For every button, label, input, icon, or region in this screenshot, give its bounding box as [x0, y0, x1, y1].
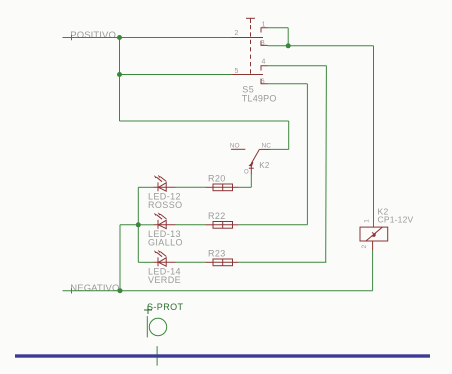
wire from switch pin 1 to junction — [268, 28, 289, 46]
pin number 6 — [261, 78, 265, 85]
R22 label — [208, 211, 226, 221]
lever arm — [251, 149, 259, 163]
lever arrowhead — [249, 162, 253, 166]
switch S5 — [232, 18, 268, 84]
coil reference K2 — [378, 207, 389, 217]
relay coil K2 — [360, 227, 388, 250]
coil pin 2 number (rotated) — [361, 245, 368, 249]
pin number 2 — [235, 30, 239, 37]
svg-text:NC: NC — [262, 142, 272, 149]
svg-text:2: 2 — [235, 30, 239, 37]
relay contact K2 — [231, 149, 270, 174]
svg-text:R22: R22 — [208, 211, 226, 221]
svg-text:S-PROT: S-PROT — [147, 302, 184, 312]
pole 1 common line (pin 2) — [232, 37, 264, 39]
pin name NC — [262, 142, 272, 149]
wire left bus vertical (POSITIVO down) — [119, 38, 121, 122]
pin number 4 — [262, 59, 266, 66]
actuator T-bar — [246, 17, 255, 19]
svg-text:4: 4 — [262, 59, 266, 66]
svg-text:5: 5 — [235, 68, 239, 75]
relay contact reference K2 — [259, 161, 270, 170]
S-PROT lead wire — [156, 346, 158, 365]
LED-12 name — [148, 192, 181, 202]
common pin vertical — [250, 165, 252, 175]
wire R22 to pin6 drop — [239, 224, 308, 226]
pin 1 contact bracket — [261, 28, 268, 33]
wire LED bus to NEGATIVO bus — [120, 225, 138, 291]
resistor R20 — [206, 184, 239, 191]
S-PROT label — [147, 302, 184, 312]
svg-text:TL49PO: TL49PO — [242, 94, 277, 104]
wire R23 to pin4 drop — [239, 261, 327, 263]
S-PROT origin cross — [144, 306, 152, 314]
wire LED-14 to R23 — [176, 261, 206, 263]
svg-text:R23: R23 — [208, 249, 226, 259]
pin 6 contact bracket — [261, 79, 268, 84]
LED-12 value ROSSO — [148, 200, 183, 210]
svg-text:6: 6 — [261, 78, 265, 85]
R23 label — [208, 249, 226, 259]
wire to relay NC contact — [120, 121, 289, 149]
S-PROT sensor symbol — [147, 316, 166, 337]
pin 3 contact bracket — [261, 41, 268, 46]
junction at second row — [117, 72, 122, 77]
NC pin lead — [259, 148, 270, 150]
wire LED-12 to R20 — [176, 186, 206, 188]
coil pin 1 number (rotated) — [364, 219, 371, 223]
wire coil bottom to NEGATIVO — [372, 250, 374, 290]
NO contact stub — [231, 148, 245, 150]
svg-text:1: 1 — [364, 219, 371, 223]
svg-text:VERDE: VERDE — [148, 275, 181, 285]
net NEGATIVO label — [70, 283, 119, 294]
wire POSITIVO horizontal — [63, 35, 232, 40]
junction pin1/pin3 net — [286, 43, 291, 48]
svg-text:2: 2 — [361, 245, 368, 249]
wire to switch pole 2 — [120, 74, 232, 76]
common pin crossbar — [249, 167, 254, 169]
LED bus vertical wire — [137, 187, 139, 262]
svg-text:R20: R20 — [208, 174, 226, 184]
junction NEGATIVO — [118, 288, 123, 293]
LED LED-13 — [138, 212, 175, 229]
svg-text:ROSSO: ROSSO — [148, 200, 183, 210]
R20 label — [208, 174, 226, 184]
S5 reference label — [242, 85, 254, 95]
LED-14 value VERDE — [148, 275, 181, 285]
svg-text:1: 1 — [262, 22, 266, 29]
wire relay common to R20 — [239, 175, 252, 188]
pin name NO — [230, 142, 240, 149]
svg-text:POSITIVO: POSITIVO — [70, 30, 116, 41]
svg-text:O: O — [244, 170, 249, 176]
resistor R22 — [206, 222, 239, 229]
LED LED-14 — [138, 250, 175, 267]
pole 2 common line (pin 5) — [232, 74, 264, 76]
svg-text:CP1-12V: CP1-12V — [378, 215, 414, 225]
svg-text:GIALLO: GIALLO — [148, 237, 183, 247]
LED-13 value GIALLO — [148, 237, 183, 247]
LED LED-12 — [138, 175, 175, 192]
wire from switch pin 6 to LED GIALLO row — [268, 84, 308, 225]
resistor R23 — [206, 259, 239, 266]
coil value CP1-12V — [378, 215, 414, 225]
S5 value TL49PO — [242, 94, 277, 104]
pin number 3 — [261, 40, 265, 47]
pin number 1 — [262, 22, 266, 29]
wire NEGATIVO horizontal — [63, 288, 373, 293]
wire from switch pin 4 to LED VERDE row — [268, 66, 327, 263]
net POSITIVO label — [70, 30, 116, 41]
junction LED bus — [136, 222, 141, 227]
LED-14 name — [148, 267, 181, 277]
pin name O — [244, 170, 249, 176]
svg-text:3: 3 — [261, 40, 265, 47]
junction on POSITIVO at left bus — [117, 35, 122, 40]
wire from switch pin 3 to relay coil K2 — [268, 46, 374, 227]
LED-13 name — [148, 229, 181, 239]
svg-text:NEGATIVO: NEGATIVO — [70, 283, 119, 294]
svg-text:K2: K2 — [259, 161, 270, 170]
actuator dashed link — [250, 25, 252, 75]
wire LED-13 to R22 — [176, 224, 206, 226]
pin number 5 — [235, 68, 239, 75]
pin 4 contact bracket — [261, 66, 268, 71]
svg-text:NO: NO — [230, 142, 240, 149]
